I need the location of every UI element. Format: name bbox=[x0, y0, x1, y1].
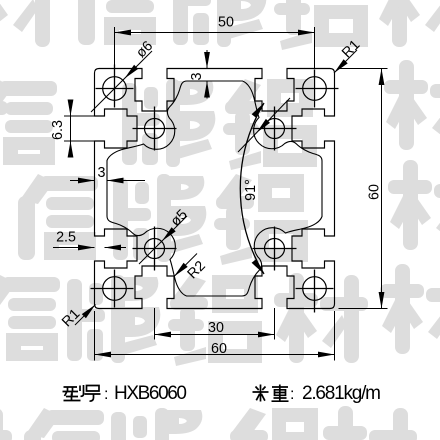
svg-text:60: 60 bbox=[367, 184, 383, 200]
dimension 30 (bottom inner) bbox=[155, 308, 275, 340]
svg-text:50: 50 bbox=[218, 15, 234, 31]
profile quadrant NE (top-right): outline, cavity wall, boss hole, corner hole bbox=[215, 69, 339, 189]
svg-text::: : bbox=[290, 386, 294, 403]
svg-text:60: 60 bbox=[211, 341, 227, 357]
leader R2 (cavity fillet radius) bbox=[174, 254, 209, 283]
svg-text:2.5: 2.5 bbox=[56, 230, 76, 246]
svg-text::: : bbox=[104, 386, 108, 403]
dimension 3 (left wall) bbox=[70, 165, 145, 183]
dimension 6.3 (left slot opening) bbox=[50, 100, 95, 158]
leader R1 (top-right corner radius) bbox=[334, 37, 363, 73]
profile quadrant SW (bottom-left), rotated 180 bbox=[91, 189, 215, 309]
leader R1 (bottom-left corner radius) bbox=[59, 305, 95, 331]
dimension 50 (top) bbox=[115, 15, 315, 69]
dimension 60 (bottom) bbox=[95, 311, 335, 361]
svg-text:6.3: 6.3 bbox=[50, 120, 66, 140]
dimension 3 (top wall) bbox=[189, 50, 210, 99]
svg-text:30: 30 bbox=[208, 320, 224, 336]
dimension 2.5 (lip) bbox=[53, 230, 126, 251]
profile quadrant SE (bottom-right), rotated 90 bbox=[215, 189, 335, 313]
angular dimension 91 deg (center arc) bbox=[240, 103, 264, 274]
bottom label: 米重 glyphs (drawn strokes) bbox=[253, 385, 289, 402]
svg-text:HXB6060: HXB6060 bbox=[114, 383, 187, 404]
svg-text:91°: 91° bbox=[243, 179, 259, 201]
svg-text:3: 3 bbox=[189, 72, 205, 80]
leader ø6 (top-left corner hole) bbox=[91, 38, 156, 112]
leader ø5 (inner boss hole) bbox=[139, 207, 191, 264]
leader line at top-right boss bbox=[238, 98, 290, 152]
svg-text:3: 3 bbox=[98, 165, 106, 181]
profile quadrant NW (top-left), rotated 270 bbox=[95, 65, 215, 189]
bottom label: 型号 glyphs (drawn strokes) bbox=[63, 385, 101, 401]
svg-text:2.681kg/m: 2.681kg/m bbox=[302, 383, 381, 404]
dimension 60 (right) bbox=[339, 69, 388, 309]
